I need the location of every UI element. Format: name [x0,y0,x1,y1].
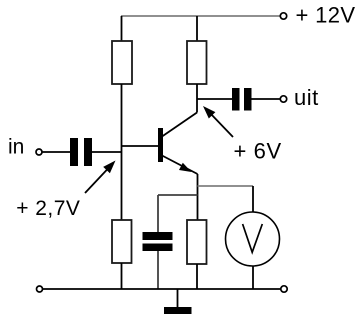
capacitor C1 (input coupling) [70,138,92,166]
wire bottom ground rail [43,288,281,290]
wire emitter down [197,174,199,220]
terminal in [36,149,42,155]
terminal uit [280,96,286,102]
svg-text:in: in [8,136,24,159]
wire bypass branch down to C3 [157,195,159,232]
wire R4 bottom to ground rail [196,264,198,289]
wire top supply rail [121,15,280,17]
capacitor C3 (emitter bypass) [143,232,173,251]
svg-text:+ 2,7V: + 2,7V [16,197,80,220]
wire voltmeter bottom lead [252,266,254,289]
resistor R3 (collector) [187,41,207,84]
wire R2 bottom to ground rail [121,263,123,289]
terminal bottom right [281,286,287,292]
wire voltmeter top lead [252,186,254,213]
svg-text:uit: uit [294,85,319,110]
capacitor C2 (output coupling) [232,88,252,111]
transistor Q1 base bar [158,128,163,162]
wire C1 to base node [92,151,122,153]
svg-text:+ 6V: + 6V [234,139,282,164]
transistor Q1 emitter lead [162,156,198,175]
wire R3 bottom to collector [196,84,198,113]
transistor Q1 collector lead [162,113,197,137]
wire in terminal to C1 [43,151,71,153]
svg-text:+ 12V: + 12V [296,3,356,28]
wire C3 to ground rail [157,251,159,289]
wire base node to transistor base [122,145,159,147]
resistor R4 (emitter) [187,220,207,264]
wire rail to R1 [121,16,123,41]
wire R1 bottom to divider node and down to R2 [121,84,123,220]
terminal +12V [280,13,286,19]
annotation arrow to base node [85,161,116,194]
transistor Q1 emitter arrow [179,163,192,172]
resistor R2 (lower divider) [112,220,132,263]
wire rail to R3 [196,16,198,41]
wire C2 to uit terminal [252,98,281,100]
annotation arrow to collector node [203,106,233,137]
wire emitter node to voltmeter [198,185,254,187]
wire ground stem [177,289,179,307]
terminal bottom left [37,286,43,292]
wire collector node to C2 [197,98,232,100]
voltmeter V [226,212,280,266]
voltmeter letter V [243,224,263,252]
wire emitter node to bypass branch [158,194,198,196]
ground [164,307,192,314]
resistor R1 [112,41,132,84]
